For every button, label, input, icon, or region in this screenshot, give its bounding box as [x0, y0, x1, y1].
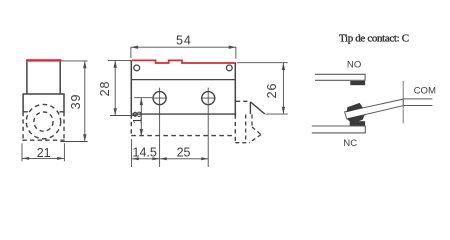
dimension 54 line	[131, 46, 236, 48]
mounting hole right circle	[202, 92, 215, 105]
svg-text:28: 28	[98, 81, 112, 97]
roller bracket hidden top edge dashed	[236, 100, 249, 102]
dimension 39 extension bottom	[60, 141, 87, 143]
dimension 39 extension top	[62, 60, 88, 62]
body dashed lower right edge (side view)	[63, 112, 65, 140]
dimension 28 extension bottom	[110, 115, 136, 117]
dimension 14.5 extension left	[131, 139, 133, 167]
dimension 21 arrow left	[22, 157, 29, 160]
dimension 28 arrow down	[114, 108, 117, 115]
dimension 14.5 arrow right	[152, 157, 159, 160]
roller outer dashed circle	[26, 104, 60, 138]
roller bracket visible chamfer	[250, 102, 264, 114]
svg-text:NC: NC	[343, 138, 357, 149]
mounting hole right crosshair	[201, 88, 216, 108]
body left edge (front view)	[130, 60, 132, 114]
dimension 25 line	[160, 158, 209, 160]
COM horizontal line bottom	[403, 105, 432, 107]
dimension 26 extension bottom	[266, 113, 288, 115]
body left edge solid (side view)	[22, 94, 24, 112]
moving contact rivet upper	[347, 103, 363, 112]
dimension 26 arrow down	[282, 107, 285, 114]
dimension 25 arrow right	[201, 157, 208, 160]
NC terminal bar	[312, 126, 366, 133]
button sides (side view)	[27, 62, 60, 94]
svg-text:COM: COM	[414, 86, 436, 97]
dimension 14.5 arrow left	[132, 157, 139, 160]
dimension 26 line	[282, 63, 284, 114]
body dashed lower left edge (side view)	[22, 112, 24, 140]
lower housing dashed right edge (front view)	[234, 115, 236, 143]
dimension 28 extension top	[108, 59, 131, 61]
dimension 54 extension right	[235, 47, 237, 59]
NC contact pad	[350, 121, 365, 126]
roller bracket hidden nose upper dashed	[252, 127, 261, 135]
dimension 18 tick at hole centerline	[134, 97, 152, 99]
lower housing dashed left edge (front view)	[130, 115, 132, 136]
dimension 18 arrow up	[140, 98, 143, 105]
dimension 39 arrow down	[83, 134, 86, 141]
roller bracket hidden vertical mid dashed	[245, 115, 247, 143]
red lever profile	[132, 60, 236, 63]
small hole right (front view)	[226, 65, 232, 71]
mounting hole left crosshair	[152, 88, 167, 108]
svg-text:Tip de contact: C: Tip de contact: C	[339, 32, 409, 44]
hole centerline extension mid	[159, 108, 161, 167]
dimension 39 line	[84, 61, 86, 141]
lower housing dashed bottom line (front view)	[131, 135, 235, 137]
dimension 39 arrow up	[83, 61, 86, 68]
dimension 18 line	[140, 98, 142, 136]
moving blade lever	[345, 99, 404, 119]
hole centerline extension right	[207, 108, 209, 167]
svg-text:21: 21	[37, 146, 51, 160]
dimension 14.5 line	[132, 158, 160, 160]
dimension 54 arrow right	[229, 46, 236, 49]
roller bracket hidden right vertical dashed	[251, 115, 253, 128]
svg-text:25: 25	[177, 146, 191, 160]
dimension 21 extension left	[21, 143, 23, 161]
body seam line (front view)	[131, 79, 235, 81]
red button cap (side view)	[26, 59, 62, 61]
NO terminal bar	[315, 74, 365, 80]
dimension 21 extension right	[63, 143, 65, 161]
COM vertical terminal line	[402, 81, 404, 123]
dimension 25 arrow left	[160, 157, 167, 160]
roller bracket hidden bottom dashed	[235, 142, 250, 144]
body bottom solid line (front view)	[131, 113, 236, 115]
body seam ticks (side view)	[23, 111, 65, 113]
mounting hole left circle	[153, 92, 166, 105]
roller bracket hidden nose lower dashed	[249, 135, 261, 143]
roller bracket visible vertical	[249, 102, 251, 114]
dimension 54 extension left	[130, 47, 132, 58]
svg-text:39: 39	[69, 94, 83, 110]
roller inner dashed circle	[34, 112, 53, 131]
svg-text:54: 54	[176, 34, 192, 48]
dimension 21 line	[22, 157, 64, 159]
body right edge solid (side view)	[63, 94, 65, 112]
dimension 54 arrow left	[131, 46, 138, 49]
COM horizontal line top	[403, 98, 432, 100]
svg-text:14.5: 14.5	[133, 146, 157, 160]
svg-text:26: 26	[265, 83, 279, 99]
body dashed bottom edge (side view)	[22, 139, 64, 141]
dimension 18 arrow down	[140, 129, 143, 136]
small hole left (front view)	[134, 65, 140, 71]
dimension 26 extension top	[237, 62, 288, 64]
dimension 26 arrow up	[282, 63, 285, 70]
dimension 28 line	[114, 61, 116, 116]
svg-text:NO: NO	[347, 59, 361, 70]
NO contact pad	[350, 81, 365, 85]
moving contact rivet lower	[347, 115, 365, 122]
body right edge (front view)	[234, 63, 236, 114]
body top edge (side view)	[23, 93, 65, 95]
dimension 21 arrow right	[57, 157, 64, 160]
dimension 28 arrow up	[114, 61, 117, 68]
svg-text:18: 18	[133, 111, 145, 124]
